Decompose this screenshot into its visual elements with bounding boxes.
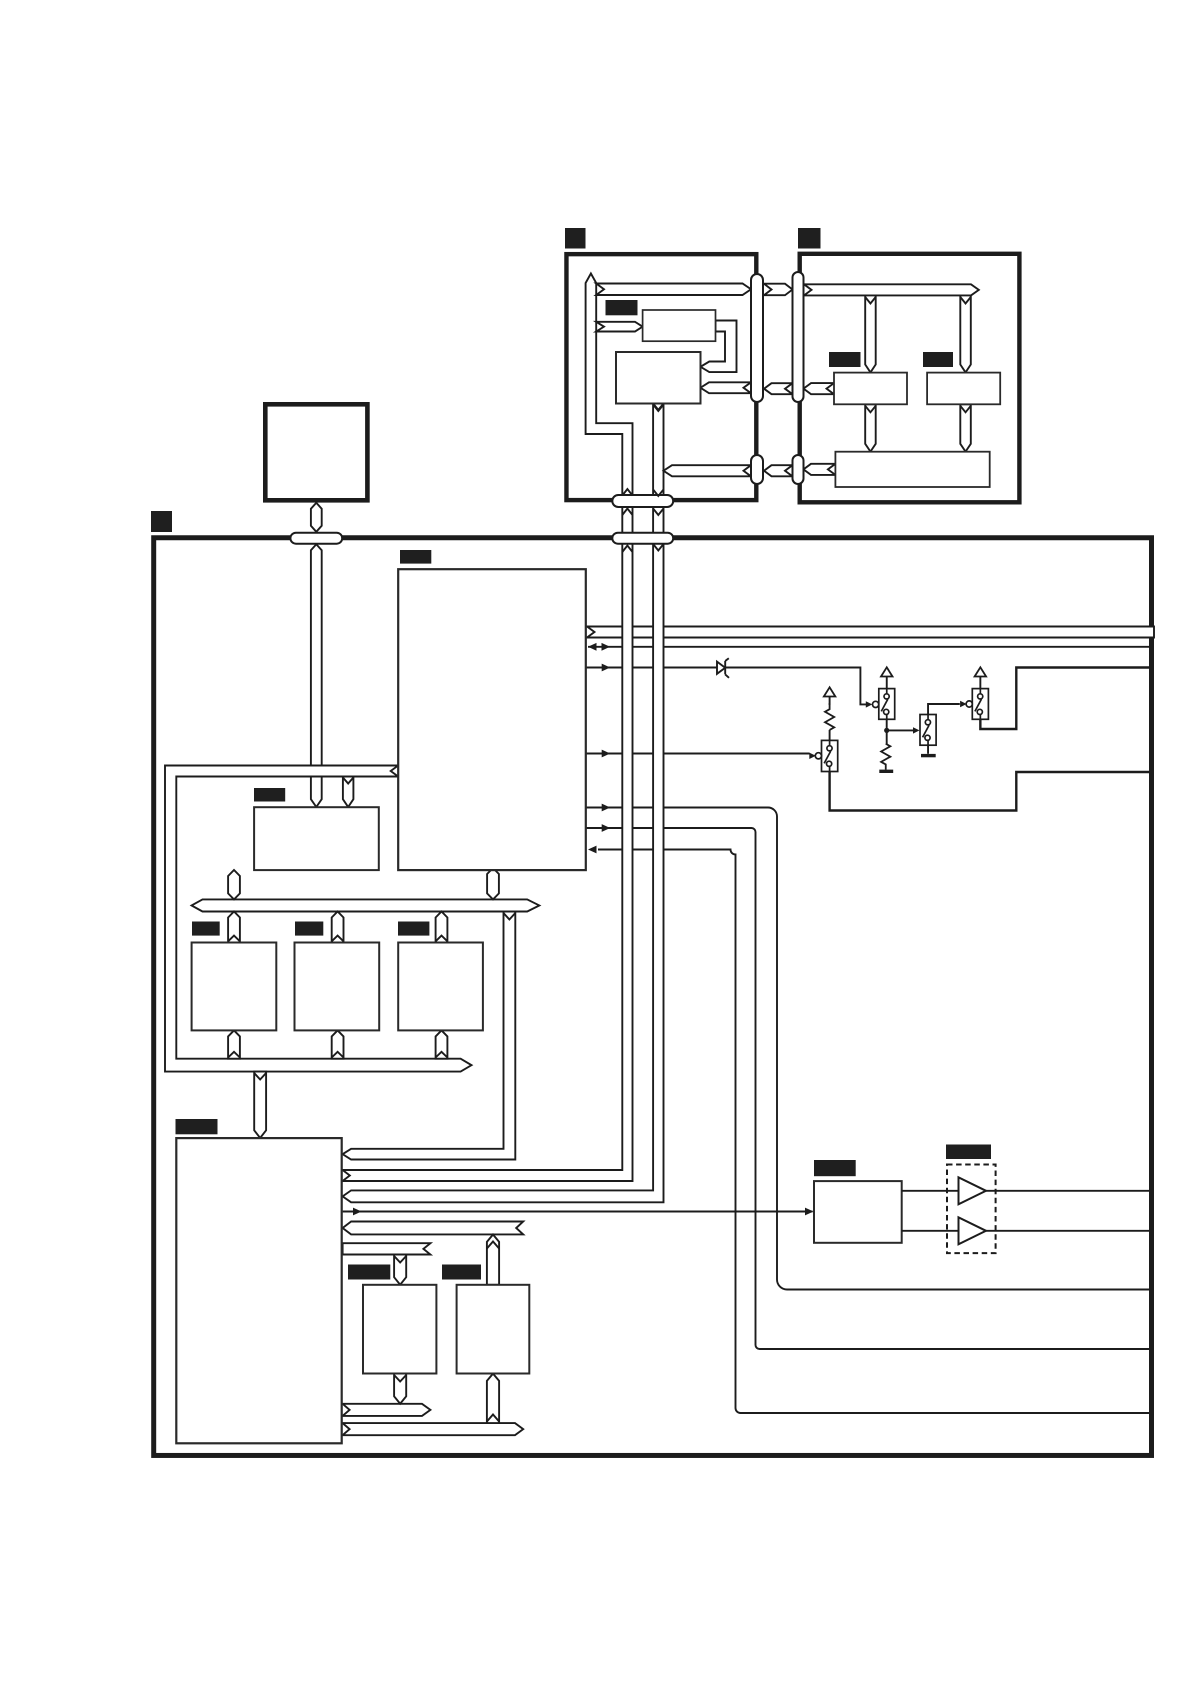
bus: box B1 drop to box B3 bbox=[865, 404, 876, 451]
arrowhead: bidirectional pair on IC line bbox=[588, 643, 597, 651]
connector: stadium on main border below panel A bbox=[612, 533, 673, 544]
bus: bus from top wide bus down into system block (bus3) bbox=[343, 912, 516, 1160]
bus: IC bottom connector bbox=[487, 868, 499, 899]
bus: box a bottom connector bbox=[228, 1030, 240, 1058]
ground below R2 bbox=[879, 770, 893, 773]
label: box b (redacted) bbox=[295, 922, 323, 936]
chevron tail on box D bottom drop bbox=[394, 1375, 406, 1382]
supply triangle above SW3 bbox=[975, 667, 987, 676]
bus: panel A top bus bbox=[596, 284, 751, 296]
chevron on bus1 above panel A stadium bbox=[622, 489, 632, 496]
bus: bus from panel A box A2 down into system block (bus2) bbox=[343, 404, 664, 1203]
bus: panel B top bus drop to box B1 bbox=[865, 295, 876, 372]
bus: gap top bus between panels bbox=[764, 284, 793, 296]
chevron tail on lower wide bus drop bbox=[254, 1073, 266, 1080]
arrowhead: IC line to SW4 bbox=[602, 750, 611, 758]
wire: box F to buffer 2 bbox=[902, 1230, 959, 1232]
wire: IC output line to switch SW4 bbox=[586, 753, 810, 755]
chevron on box E top riser bbox=[487, 1242, 499, 1249]
bus: box C bottom connector bbox=[228, 870, 240, 899]
connector: tall stadium on panel B left border bbox=[793, 272, 804, 402]
buffer triangle 2 bbox=[959, 1217, 987, 1244]
chevron tail on bus2 below box A2 bbox=[653, 405, 663, 412]
switch SW3 bbox=[966, 689, 988, 720]
label: system block (redacted) bbox=[176, 1119, 218, 1134]
wire: switch SW4 bottom to right edge bbox=[830, 772, 1154, 811]
arrowhead: input into IC at y849 bbox=[588, 846, 597, 854]
label: panel A designator (redacted) bbox=[565, 228, 586, 249]
bus: panel B bottom bus from connector into box B3 bbox=[804, 464, 836, 475]
wire: SW1 bottom to dot, dot to SW2, dot to resistor R2 bbox=[887, 719, 913, 744]
connector: small stadium on panel A right border bbox=[751, 455, 763, 484]
panel B border bbox=[800, 254, 1020, 502]
wire: control line from system block to box F bbox=[343, 1211, 813, 1213]
arrowhead: into SW2 bbox=[913, 727, 920, 733]
bus: box b bottom connector bbox=[332, 1030, 344, 1058]
chevron tail on panel B drop to B1 bbox=[865, 297, 876, 304]
panel A border bbox=[566, 254, 756, 500]
bus: system block lower bus stub (bus5) bbox=[343, 1404, 431, 1416]
resistor R2 bbox=[881, 744, 890, 770]
resistor R1 bbox=[825, 703, 834, 730]
wire: SW4 top pin to resistor R1 bbox=[829, 730, 831, 741]
chevron on box a top connector bbox=[228, 936, 240, 942]
bus: system block bus to box D (bus d in) bbox=[343, 1243, 431, 1254]
box B1 in panel B bbox=[834, 373, 907, 405]
bus: system block lower bus stub (bus6) bbox=[343, 1423, 524, 1435]
main panel border bbox=[154, 538, 1152, 1456]
chevron on bus2 between stadiums bbox=[653, 509, 663, 516]
chevron on bus1 below main border stadium bbox=[622, 546, 632, 553]
connector: small stadium on panel B left border bbox=[793, 455, 804, 484]
chevron tail on bus3 top bbox=[504, 913, 516, 920]
bus: segment from small square box to border connector (seg1) bbox=[311, 503, 322, 532]
label: box E (redacted) bbox=[442, 1265, 481, 1280]
label: IC designator (redacted) bbox=[400, 550, 431, 564]
connector: stadium on main border below square box bbox=[290, 533, 342, 544]
junction dot below SW1 bbox=[884, 728, 889, 733]
IC: large IC block bbox=[398, 569, 586, 870]
label: box B1 (redacted) bbox=[829, 352, 861, 367]
wire: box F to buffer 1 bbox=[902, 1190, 959, 1192]
chevron on box a bottom connector bbox=[228, 1052, 240, 1058]
switch SW1 bbox=[873, 689, 895, 720]
box B3 in panel B bbox=[835, 452, 989, 487]
bus: system block output bus stub (bus4) bbox=[343, 1222, 524, 1235]
wire: IC output line curving down to bottom right output bbox=[586, 808, 1154, 1290]
supply triangle above R1 bbox=[824, 687, 836, 696]
bus: box E top riser to bus4 bbox=[487, 1235, 499, 1285]
bus: drop into box D top bbox=[394, 1255, 406, 1285]
bus: IC output bus to right edge bbox=[587, 627, 1154, 638]
bus: panel A mid bus from connector into box A2 bbox=[701, 382, 752, 393]
bus: panel A bottom bus from connector into bus2 bbox=[664, 465, 752, 476]
chevron tail on box C short drop bbox=[343, 778, 354, 784]
chevron tail on B1 to B3 drop bbox=[865, 406, 876, 413]
label: box a (redacted) bbox=[192, 922, 220, 936]
wire: buffer 1 output to right edge bbox=[986, 1190, 1154, 1192]
box A1 in panel A bbox=[643, 310, 716, 341]
bus: panel B top bus bbox=[804, 284, 979, 295]
chevron on box E bottom riser bbox=[487, 1415, 499, 1422]
chevron on box b top connector bbox=[332, 936, 344, 942]
arrowhead: into SW4 bbox=[809, 753, 816, 759]
bus: main bus from system block up into panel A (bus1) bbox=[343, 274, 633, 1182]
box a bbox=[192, 943, 277, 1031]
wire: IC input line from bottom right bbox=[598, 850, 1154, 1414]
box A2 in panel A bbox=[616, 352, 701, 404]
bus: wire from box A1 to box A2 bbox=[701, 321, 737, 373]
switch SW4 bbox=[815, 740, 837, 771]
arrowhead: IC zener line bbox=[602, 664, 611, 672]
bus: panel B mid bus from connector into box B1 bbox=[804, 383, 835, 394]
arrowhead: into box F bbox=[805, 1208, 814, 1216]
bus: wide bus to box b connector bbox=[332, 912, 344, 943]
wire: IC bidirectional line to right edge bbox=[588, 646, 1154, 648]
bus: top wide bus bbox=[192, 899, 540, 911]
box b bbox=[295, 943, 380, 1031]
ground below SW2 bbox=[921, 754, 936, 757]
switch SW2 bbox=[920, 715, 936, 746]
bus: gap bottom bus between panels bbox=[764, 465, 793, 476]
label: box B2 (redacted) bbox=[923, 352, 953, 367]
chevron tail on panel B drop to B2 bbox=[960, 297, 971, 304]
label: buffer pair (redacted) bbox=[946, 1145, 991, 1160]
wire: R1 to supply triangle bbox=[829, 696, 831, 705]
dashed box around buffers bbox=[947, 1165, 996, 1254]
wire: SW2 top pin to SW3 bbox=[928, 704, 960, 715]
bus: box E bottom riser from bus6 bbox=[487, 1374, 499, 1424]
wire: SW2 bottom pin bbox=[927, 745, 929, 754]
box D bbox=[363, 1285, 436, 1374]
box c bbox=[398, 943, 483, 1031]
bus: box D bottom drop to bus5 bbox=[394, 1374, 406, 1404]
wire: SW1 top pin to supply triangle bbox=[886, 676, 888, 688]
arrowhead: IC line y828 bbox=[602, 824, 611, 832]
bus: wide bus to box a connector bbox=[228, 912, 240, 943]
label: box C (redacted) bbox=[254, 788, 285, 802]
box C bbox=[254, 807, 379, 870]
bus: segment from border connector down to box C (seg2) bbox=[311, 544, 322, 807]
chevron on box c bottom connector bbox=[436, 1052, 448, 1058]
chevron on box b bottom connector bbox=[332, 1052, 344, 1058]
wire: zener line from IC, down at x860 to switch SW1 bbox=[586, 668, 866, 705]
bus: short drop from IC-left bus to box C bbox=[343, 777, 354, 808]
bus: panel A bus into box A1 bbox=[596, 322, 642, 332]
bus: box c bottom connector bbox=[436, 1030, 448, 1058]
small square box (top left unit) bbox=[265, 404, 367, 500]
chevron tail on B2 to B3 drop bbox=[960, 406, 971, 413]
wire: switch SW3 bottom to right edge bbox=[980, 668, 1154, 730]
chevron on bus2 below main border stadium bbox=[653, 544, 663, 551]
wire: IC output line to bottom right output 2 bbox=[586, 828, 1154, 1349]
label: box c (redacted) bbox=[398, 922, 429, 936]
label: main panel designator (redacted) bbox=[151, 511, 172, 532]
bus: wide bus to box c connector bbox=[436, 912, 448, 943]
connector: stadium on panel A bottom border bbox=[612, 495, 673, 507]
chevron tail on box D top drop bbox=[394, 1256, 406, 1263]
zener diode on IC line bbox=[717, 658, 729, 678]
box F bbox=[814, 1181, 902, 1243]
bus: panel B top bus drop to box B2 bbox=[960, 295, 971, 372]
chevron on box c top connector bbox=[436, 936, 448, 942]
bus: lower wide bus drop into system block bbox=[254, 1072, 266, 1138]
connector: tall stadium on panel A right border bbox=[751, 274, 763, 402]
label: box A1 (redacted) bbox=[606, 300, 638, 315]
label: panel B designator (redacted) bbox=[798, 228, 821, 249]
box E bbox=[457, 1285, 530, 1374]
chevron on bus1 between stadiums bbox=[622, 509, 632, 516]
box B2 in panel B bbox=[927, 373, 1000, 405]
bus: IC left bus going west, down and east along lower wide bus bbox=[165, 766, 472, 1072]
arrowhead: into SW1 bbox=[866, 701, 873, 707]
wire: SW3 top pin to supply triangle bbox=[979, 676, 981, 688]
arrowhead: at system block output line bbox=[353, 1208, 362, 1216]
label: box F (redacted) bbox=[814, 1160, 856, 1176]
supply triangle above SW1 bbox=[881, 667, 893, 676]
arrowhead: into SW3 bbox=[960, 701, 967, 707]
wire: buffer 2 output to right edge bbox=[986, 1230, 1154, 1232]
system control block bbox=[176, 1138, 341, 1443]
chevron on bus2 above panel A stadium bbox=[653, 490, 663, 497]
bus: box B2 drop to box B3 bbox=[960, 404, 971, 451]
arrowhead: IC line y807 bbox=[602, 804, 611, 812]
label: box D (redacted) bbox=[348, 1265, 390, 1280]
bus: gap mid bus between panels bbox=[764, 383, 793, 394]
buffer triangle 1 bbox=[959, 1177, 987, 1204]
